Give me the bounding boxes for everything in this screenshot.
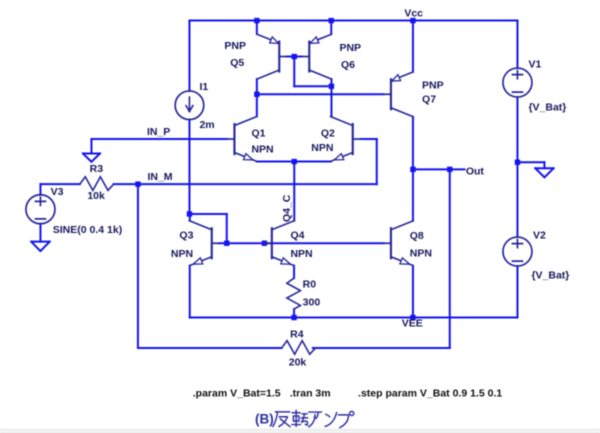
svg-text:Vcc: Vcc <box>404 8 423 20</box>
svg-text:IN_M: IN_M <box>147 171 172 183</box>
svg-text:SINE(0 0.4 1k): SINE(0 0.4 1k) <box>53 224 122 236</box>
svg-text:Q6: Q6 <box>341 59 355 71</box>
svg-text:2m: 2m <box>199 119 214 131</box>
svg-text:Q2: Q2 <box>321 128 335 140</box>
svg-text:Q8: Q8 <box>410 230 424 242</box>
svg-text:IN_P: IN_P <box>147 126 170 138</box>
svg-text:(B): (B) <box>255 411 274 426</box>
svg-text:Out: Out <box>466 166 485 178</box>
svg-text:20k: 20k <box>289 357 307 369</box>
svg-text:{V_Bat}: {V_Bat} <box>528 102 566 114</box>
svg-text:V2: V2 <box>533 229 546 241</box>
svg-text:I1: I1 <box>199 81 208 93</box>
svg-text:PNP: PNP <box>224 40 246 52</box>
svg-text:.tran 3m: .tran 3m <box>290 388 331 400</box>
svg-text:VEE: VEE <box>402 318 423 330</box>
svg-text:Q1: Q1 <box>251 128 265 140</box>
svg-text:Q5: Q5 <box>230 57 244 69</box>
svg-text:R4: R4 <box>290 329 304 341</box>
svg-text:.step param V_Bat 0.9 1.5 0.1: .step param V_Bat 0.9 1.5 0.1 <box>358 388 502 400</box>
svg-text:.param V_Bat=1.5: .param V_Bat=1.5 <box>193 388 281 400</box>
svg-text:NPN: NPN <box>171 248 193 260</box>
svg-text:Q7: Q7 <box>422 93 436 105</box>
svg-text:{V_Bat}: {V_Bat} <box>531 270 569 282</box>
svg-text:PNP: PNP <box>339 42 361 54</box>
svg-text:NPN: NPN <box>410 248 432 260</box>
svg-text:PNP: PNP <box>422 80 444 92</box>
svg-text:300: 300 <box>303 297 321 309</box>
svg-text:Q4_C: Q4_C <box>281 194 293 222</box>
svg-text:NPN: NPN <box>251 144 273 156</box>
svg-text:NPN: NPN <box>311 142 333 154</box>
svg-text:V3: V3 <box>51 186 64 198</box>
svg-text:V1: V1 <box>528 58 541 70</box>
svg-text:Q4: Q4 <box>290 230 304 242</box>
svg-text:Q3: Q3 <box>179 230 193 242</box>
svg-text:R0: R0 <box>303 279 317 291</box>
svg-text:NPN: NPN <box>290 248 312 260</box>
svg-text:R3: R3 <box>90 163 104 175</box>
svg-text:10k: 10k <box>87 190 105 202</box>
